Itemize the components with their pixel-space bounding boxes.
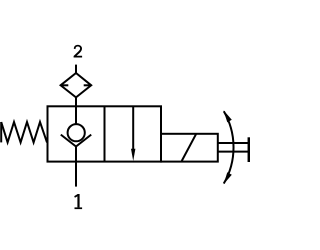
lever actuator box — [161, 134, 218, 162]
check valve ball — [68, 124, 85, 141]
wire check valve to box bottom — [75, 147, 77, 162]
flow path arrowhead — [131, 149, 135, 161]
flow path arrow line — [132, 106, 134, 151]
spring zigzag — [1, 122, 47, 142]
rotation arrowhead bottom — [224, 172, 232, 184]
coupling right tick — [84, 84, 92, 86]
lever diagonal — [182, 134, 197, 161]
valve body box — [48, 106, 162, 161]
shaft upper line — [218, 142, 249, 144]
coupling left tick — [61, 84, 69, 86]
rotation arc — [224, 111, 234, 183]
wire port 1 stub — [75, 162, 77, 187]
wire into check valve — [75, 106, 77, 124]
quick coupling diamond — [61, 73, 92, 97]
check valve seat — [61, 135, 91, 147]
shaft end bar — [248, 137, 251, 162]
port label 2 — [74, 45, 83, 58]
rotation arrowhead top — [224, 110, 232, 122]
spring end bar — [0, 122, 2, 142]
shaft lower line — [218, 151, 249, 153]
cell divider — [104, 106, 106, 161]
port label 1 — [74, 194, 82, 209]
wire diamond to valve body — [75, 97, 77, 106]
wire port 2 stub — [75, 65, 77, 73]
